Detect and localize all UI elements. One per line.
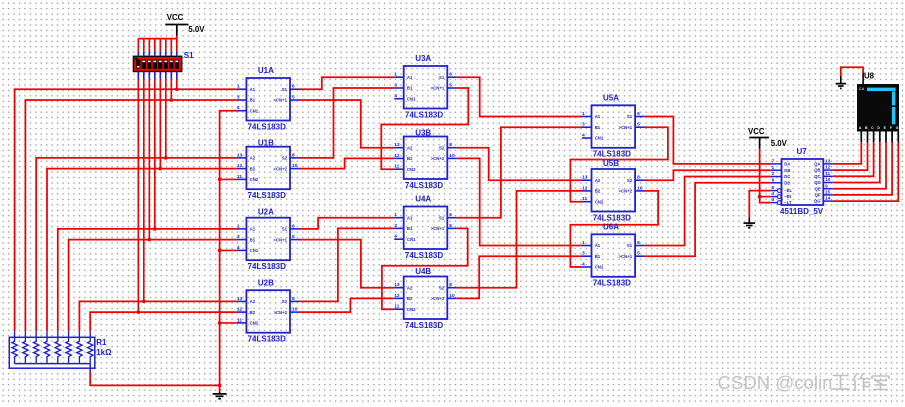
svg-text:>CN+2: >CN+2 <box>431 296 445 301</box>
svg-text:11: 11 <box>394 164 399 170</box>
svg-text:U4A: U4A <box>415 195 431 204</box>
svg-text:15: 15 <box>825 190 831 195</box>
svg-text:1: 1 <box>237 84 240 90</box>
svg-text:8: 8 <box>637 175 640 181</box>
svg-text:A1: A1 <box>595 243 601 248</box>
wire input net 8: R1 pin 8 up, along y=312 to chip input, switch S1 drop <box>90 80 237 331</box>
op-amp-style adder chip U1B 74LS183D <box>237 138 300 200</box>
svg-text:DD: DD <box>784 180 790 185</box>
op-amp-style adder chip U3B 74LS183D <box>394 129 457 190</box>
wire U1A.S1 to U3A.A1 <box>300 77 395 89</box>
wire VCC to switch top bus <box>138 36 177 39</box>
svg-text:1: 1 <box>394 212 397 218</box>
svg-text:QG: QG <box>814 199 821 204</box>
wire display CA pin to ground <box>841 67 863 84</box>
svg-text:B2: B2 <box>407 296 413 301</box>
svg-text:5: 5 <box>292 234 295 240</box>
svg-text:5: 5 <box>637 122 640 128</box>
ground symbol near display U8 <box>836 76 846 88</box>
wire U7.QF to display pin F <box>833 142 892 195</box>
svg-text:13: 13 <box>582 175 588 181</box>
svg-text:13: 13 <box>237 296 243 302</box>
op-amp-style adder chip U4A 74LS183D <box>394 195 457 260</box>
svg-text:A1: A1 <box>407 215 413 220</box>
svg-text:12: 12 <box>394 293 400 299</box>
svg-text:QD: QD <box>814 180 820 185</box>
svg-text:U6A: U6A <box>603 223 619 232</box>
svg-text:13: 13 <box>394 142 400 148</box>
svg-text:1: 1 <box>394 72 397 78</box>
svg-text:74LS183D: 74LS183D <box>248 262 286 271</box>
wire U2B.S2 to U4A.B1 <box>300 228 395 301</box>
svg-text:4: 4 <box>237 245 240 251</box>
svg-text:A2: A2 <box>595 178 601 183</box>
svg-text:8: 8 <box>449 142 452 148</box>
svg-text:B1: B1 <box>407 226 413 231</box>
svg-text:3: 3 <box>582 251 585 257</box>
svg-text:8: 8 <box>449 282 452 288</box>
svg-text:74LS183D: 74LS183D <box>405 251 443 260</box>
svg-text:3: 3 <box>237 94 240 100</box>
svg-text:14: 14 <box>825 196 831 201</box>
op-amp-style adder chip U1A 74LS183D <box>237 66 300 131</box>
svg-text:3: 3 <box>237 234 240 240</box>
svg-text:>CN+1: >CN+1 <box>273 237 287 242</box>
wire U3B.S2 to U5B.A2 <box>457 148 582 181</box>
wire input net 2: R1 pin 2 up, along y=100 to chip input, switch S1 drop <box>25 80 237 331</box>
svg-text:9: 9 <box>825 183 828 188</box>
svg-text:S2: S2 <box>282 156 288 161</box>
svg-text:~EL: ~EL <box>784 188 792 193</box>
wire VCC to U7 ~LT and ~BI <box>758 149 771 203</box>
wire U3A.CN+1 to U3B.CN2 <box>381 88 468 169</box>
wire U3B.CN+2 to U6A.A1 <box>457 158 582 245</box>
svg-text:11: 11 <box>394 304 399 310</box>
svg-text:>CN+2: >CN+2 <box>431 156 445 161</box>
svg-text:12: 12 <box>825 165 831 170</box>
svg-text:A1: A1 <box>407 75 413 80</box>
op-amp-style adder chip U4B 74LS183D <box>394 267 457 330</box>
svg-text:U1B: U1B <box>258 138 274 147</box>
svg-text:5: 5 <box>449 223 452 229</box>
svg-text:B2: B2 <box>407 156 413 161</box>
wire U5B.CN+2 to U6A.CN1 <box>570 191 658 267</box>
svg-text:10: 10 <box>449 293 455 299</box>
svg-text:A2: A2 <box>250 156 256 161</box>
watermark CSDN @colin studio <box>718 372 890 394</box>
wire U1B.S2 to U3A.B1 <box>300 88 395 158</box>
svg-text:U2B: U2B <box>258 278 274 287</box>
svg-text:74LS183D: 74LS183D <box>248 122 286 131</box>
svg-text:6: 6 <box>772 177 775 182</box>
svg-text:3: 3 <box>772 197 775 202</box>
svg-text:QE: QE <box>814 186 820 191</box>
svg-text:S2: S2 <box>439 285 445 290</box>
svg-text:5.0V: 5.0V <box>188 25 205 34</box>
svg-text:4: 4 <box>582 261 585 267</box>
svg-text:12: 12 <box>394 153 400 159</box>
svg-text:74LS183D: 74LS183D <box>248 191 286 200</box>
svg-text:S1: S1 <box>439 215 445 220</box>
svg-text:>CN+1: >CN+1 <box>431 226 445 231</box>
svg-text:5.0V: 5.0V <box>771 139 788 148</box>
svg-text:B1: B1 <box>407 86 413 91</box>
wire input net 3: R1 pin 3 up, along y=158 to chip input, switch S1 drop <box>36 80 237 331</box>
svg-text:4: 4 <box>237 105 240 111</box>
wire input net 4: R1 pin 4 up, along y=169 to chip input, switch S1 drop <box>47 80 237 331</box>
svg-text:B2: B2 <box>595 189 601 194</box>
svg-text:7: 7 <box>772 159 775 164</box>
svg-text:B2: B2 <box>250 310 256 315</box>
wire input net 5: R1 pin 5 up, along y=229 to chip input, switch S1 drop <box>58 80 237 331</box>
wire U7.QG to display pin G <box>833 142 899 201</box>
op-amp-style adder chip U2A 74LS183D <box>237 207 300 271</box>
svg-text:74LS183D: 74LS183D <box>248 335 286 344</box>
svg-text:R1: R1 <box>96 338 107 347</box>
svg-text:CN2: CN2 <box>250 321 259 326</box>
svg-text:6: 6 <box>449 72 452 78</box>
wire U2B.CN+2 to U4B.B2 <box>300 298 395 312</box>
wire U7.QE to display pin E <box>833 142 886 189</box>
svg-text:10: 10 <box>825 177 831 182</box>
wire U2A.S1 to U4A.A1 <box>300 218 395 229</box>
svg-text:U3B: U3B <box>415 129 431 138</box>
svg-text:DC: DC <box>784 174 790 179</box>
wire U6A.CN+1 to U7.DD <box>645 183 771 256</box>
power VCC symbol near U7 with 5.0V label <box>748 127 788 149</box>
wire U4B.CN+2 to U6A.B1 <box>457 256 582 298</box>
ground symbol near U7 <box>744 217 756 228</box>
svg-text:CN1: CN1 <box>407 237 416 242</box>
svg-text:CN2: CN2 <box>595 199 604 204</box>
wire U7 ~EL to ground <box>749 191 770 218</box>
wire U3A.S1 to U5A.A1 <box>457 77 582 116</box>
svg-text:CN1: CN1 <box>250 248 259 253</box>
svg-text:B1: B1 <box>595 254 601 259</box>
wire U5A.S1 to U7.DA <box>645 117 771 164</box>
svg-text:12: 12 <box>237 163 243 169</box>
svg-text:B1: B1 <box>250 237 256 242</box>
svg-text:A2: A2 <box>250 299 256 304</box>
svg-text:1: 1 <box>582 240 585 246</box>
wire U6A.S1 to U7.DC <box>645 177 771 246</box>
svg-text:6: 6 <box>637 111 640 117</box>
svg-text:CN1: CN1 <box>595 265 604 270</box>
svg-text:4: 4 <box>582 132 585 138</box>
svg-text:11: 11 <box>237 174 242 180</box>
wire U1A.CN+1 to U3B.A2 <box>300 100 395 148</box>
svg-text:~LT: ~LT <box>784 200 792 205</box>
svg-text:1: 1 <box>582 111 585 117</box>
svg-text:4: 4 <box>394 93 397 99</box>
svg-text:U4B: U4B <box>415 267 431 276</box>
svg-text:U3A: U3A <box>415 54 431 63</box>
svg-text:74LS183D: 74LS183D <box>593 213 631 222</box>
svg-text:S1: S1 <box>282 227 288 232</box>
svg-text:CN2: CN2 <box>407 307 416 312</box>
svg-text:10: 10 <box>292 163 298 169</box>
wire input net 6: R1 pin 6 up, along y=240 to chip input, switch S1 drop <box>69 80 237 331</box>
svg-text:3: 3 <box>394 82 397 88</box>
svg-text:6: 6 <box>292 223 295 229</box>
svg-text:2: 2 <box>772 171 775 176</box>
svg-text:4: 4 <box>394 234 397 240</box>
svg-text:>CN+2: >CN+2 <box>273 310 287 315</box>
svg-text:A2: A2 <box>407 145 413 150</box>
svg-text:13: 13 <box>394 282 400 288</box>
svg-text:CN1: CN1 <box>595 136 604 141</box>
svg-text:S2: S2 <box>627 178 633 183</box>
svg-text:U7: U7 <box>797 147 808 156</box>
svg-text:VCC: VCC <box>167 13 184 22</box>
wire input net 7: R1 pin 7 up, along y=301 to chip input, switch S1 drop <box>79 80 237 331</box>
svg-text:G: G <box>896 126 899 130</box>
svg-text:CN1: CN1 <box>250 108 259 113</box>
svg-text:5: 5 <box>449 82 452 88</box>
svg-text:DA: DA <box>784 162 790 167</box>
svg-text:5: 5 <box>637 251 640 257</box>
svg-text:>CN+1: >CN+1 <box>273 98 287 103</box>
wire U7.QD to display pin D <box>833 142 880 183</box>
op-amp-style adder chip U3A 74LS183D <box>394 54 457 119</box>
op-amp-style adder chip U2B 74LS183D <box>237 278 300 343</box>
svg-text:8: 8 <box>292 152 295 158</box>
svg-text:S1: S1 <box>439 75 445 80</box>
7-segment display U8 (black, cyan segments showing 7) <box>857 72 899 143</box>
svg-text:>CN+2: >CN+2 <box>273 166 287 171</box>
ground symbol bottom-center <box>213 392 227 399</box>
svg-text:74LS183D: 74LS183D <box>593 150 631 159</box>
power VCC symbol top-left with 5.0V label <box>165 13 205 36</box>
svg-text:S1: S1 <box>627 114 633 119</box>
svg-text:6: 6 <box>292 84 295 90</box>
svg-text:10: 10 <box>637 185 643 191</box>
svg-text:A2: A2 <box>407 285 413 290</box>
svg-text:>CN+1: >CN+1 <box>431 86 445 91</box>
svg-text:8: 8 <box>292 296 295 302</box>
svg-text:4511BD_5V: 4511BD_5V <box>780 207 824 216</box>
svg-text:A1: A1 <box>250 227 256 232</box>
svg-text:A1: A1 <box>595 114 601 119</box>
svg-text:CN2: CN2 <box>407 167 416 172</box>
wire U7.QC to display pin C <box>833 142 874 176</box>
svg-text:10: 10 <box>449 153 455 159</box>
wire U1B.CN+2 to U3B.B2 <box>300 158 395 168</box>
svg-text:1: 1 <box>772 165 775 170</box>
svg-text:74LS183D: 74LS183D <box>405 110 443 119</box>
svg-text:CN1: CN1 <box>407 96 416 101</box>
svg-text:S1: S1 <box>282 87 288 92</box>
svg-text:S1: S1 <box>184 51 194 60</box>
svg-text:CA: CA <box>859 86 865 91</box>
resistor pack R1 1kOhm (8 resistors) <box>9 331 112 371</box>
DIP switch S1 (8 switches, red body) <box>133 51 194 72</box>
svg-text:A1: A1 <box>250 87 256 92</box>
op-amp-style adder chip U5A 74LS183D <box>582 94 645 159</box>
svg-text:U5B: U5B <box>603 159 619 168</box>
svg-text:QB: QB <box>814 168 820 173</box>
svg-text:5: 5 <box>772 185 775 190</box>
svg-text:74LS183D: 74LS183D <box>593 279 631 288</box>
svg-text:CN2: CN2 <box>250 177 259 182</box>
svg-text:11: 11 <box>825 171 830 176</box>
op-amp-style adder chip U5B 74LS183D <box>582 159 645 222</box>
wire U4B.S2 to U5B.B2 <box>457 191 582 288</box>
svg-text:74LS183D: 74LS183D <box>405 181 443 190</box>
svg-text:12: 12 <box>237 307 243 313</box>
svg-text:10: 10 <box>292 307 298 313</box>
svg-text:4: 4 <box>772 191 775 196</box>
wire R1 common pin to ground rail <box>90 371 219 385</box>
wire U4A.S1 to U5A.B1 <box>457 127 582 218</box>
decoder chip U7 4511BD_5V <box>771 147 833 216</box>
wire CN inputs chain to ground (vertical x=219.6) <box>218 111 237 392</box>
wire U5B.S2 to U7.DB <box>645 170 771 180</box>
svg-text:QA: QA <box>814 162 820 167</box>
svg-text:1: 1 <box>237 223 240 229</box>
svg-text:S2: S2 <box>439 145 445 150</box>
svg-text:B2: B2 <box>250 166 256 171</box>
wire U7.QA to display pin A <box>833 142 862 164</box>
svg-text:U8: U8 <box>864 72 875 81</box>
svg-text:3: 3 <box>394 223 397 229</box>
svg-text:S1: S1 <box>627 243 633 248</box>
svg-text:DB: DB <box>784 168 790 173</box>
svg-text:S2: S2 <box>282 299 288 304</box>
svg-text:5: 5 <box>292 94 295 100</box>
wire switch top pin stubs <box>138 39 177 80</box>
svg-text:QF: QF <box>815 193 821 198</box>
wire U2A.CN+1 to U4B.A2 <box>300 240 395 288</box>
svg-text:6: 6 <box>637 240 640 246</box>
svg-text:>CN+1: >CN+1 <box>618 125 632 130</box>
svg-text:QC: QC <box>814 174 820 179</box>
svg-text:12: 12 <box>582 185 588 191</box>
svg-text:~BI: ~BI <box>784 194 791 199</box>
svg-text:11: 11 <box>582 196 587 202</box>
svg-text:B1: B1 <box>595 125 601 130</box>
svg-text:1kΩ: 1kΩ <box>96 348 112 357</box>
svg-text:13: 13 <box>237 152 243 158</box>
wire U4A.CN+1 to U4B.CN2 <box>382 228 468 309</box>
svg-text:74LS183D: 74LS183D <box>405 321 443 330</box>
svg-text:B1: B1 <box>250 98 256 103</box>
wire input net 1: R1 pin 1 up, along y=89 to chip input, switch S1 drop <box>15 80 237 331</box>
svg-text:U5A: U5A <box>603 94 619 103</box>
svg-text:CSDN @colin: CSDN @colin <box>718 372 833 393</box>
svg-text:3: 3 <box>582 122 585 128</box>
svg-text:6: 6 <box>449 212 452 218</box>
svg-text:>CN+1: >CN+1 <box>618 254 632 259</box>
svg-text:>CN+2: >CN+2 <box>618 189 632 194</box>
svg-text:11: 11 <box>237 317 242 323</box>
svg-text:VCC: VCC <box>748 127 765 136</box>
wire U7.QB to display pin B <box>833 142 868 170</box>
op-amp-style adder chip U6A 74LS183D <box>582 223 645 288</box>
svg-text:13: 13 <box>825 159 831 164</box>
wire U5A.CN+1 to U5B.CN2 <box>570 127 668 202</box>
svg-text:U1A: U1A <box>258 66 274 75</box>
svg-text:U2A: U2A <box>258 207 274 216</box>
